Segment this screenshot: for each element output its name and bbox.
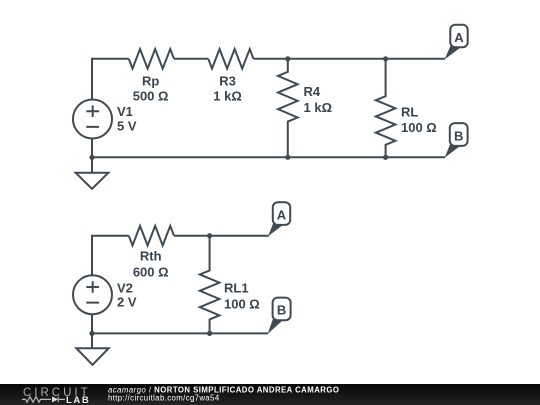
svg-text:100 Ω: 100 Ω <box>224 297 260 312</box>
svg-text:LAB: LAB <box>66 395 90 405</box>
junction dot RL top <box>383 56 388 61</box>
svg-text:R4: R4 <box>304 84 321 99</box>
resistor R4 <box>278 59 298 158</box>
resistor RL <box>376 59 396 158</box>
svg-text:A: A <box>277 207 287 222</box>
svg-text:http://circuitlab.com/cg7wa54: http://circuitlab.com/cg7wa54 <box>108 394 220 403</box>
voltage source V2 <box>73 275 112 314</box>
flag tail A top <box>445 46 460 60</box>
flag tail A bottom <box>268 223 283 236</box>
junction dot Rth/RL1 <box>207 233 212 238</box>
wire R3 to node A <box>254 58 446 60</box>
svg-text:RL: RL <box>401 104 418 119</box>
svg-text:1 kΩ: 1 kΩ <box>213 88 242 103</box>
node flag B box top <box>450 123 468 146</box>
svg-text:V2: V2 <box>117 280 133 295</box>
svg-text:B: B <box>277 303 286 318</box>
wire top-left corner V1 to Rp <box>92 59 129 100</box>
junction dot R4 bottom <box>285 155 290 160</box>
wire Rp to R3 <box>174 58 208 60</box>
flag tail B top <box>445 144 460 158</box>
junction dot Rp/R4 top <box>285 56 290 61</box>
node flag B box bottom <box>273 298 291 321</box>
junction dot V1 bottom <box>89 155 94 160</box>
voltage source V1 <box>73 100 112 139</box>
svg-text:R3: R3 <box>219 74 236 89</box>
svg-text:B: B <box>454 128 463 143</box>
svg-text:5 V: 5 V <box>117 118 137 133</box>
resistor R3 <box>208 49 253 69</box>
svg-text:600 Ω: 600 Ω <box>133 264 169 279</box>
junction dot RL1 bottom <box>207 331 212 336</box>
svg-text:2 V: 2 V <box>117 294 137 309</box>
svg-text:1 kΩ: 1 kΩ <box>304 100 333 115</box>
ground top <box>76 173 109 189</box>
svg-text:Rth: Rth <box>140 249 162 264</box>
flag tail B bottom <box>268 319 283 335</box>
logo resistor-diode glyph <box>22 397 65 403</box>
bottom circuit: wire corner V2 to Rth <box>92 236 129 276</box>
wire bottom rail bottom circuit <box>92 332 268 334</box>
ground bottom <box>76 348 108 365</box>
svg-text:A: A <box>454 30 464 45</box>
wire Rth to node A bottom <box>174 235 269 237</box>
node flag A box bottom <box>273 202 290 225</box>
svg-text:V1: V1 <box>117 104 133 119</box>
wire V2 bottom to ground <box>91 314 93 348</box>
wire bottom rail top circuit <box>92 156 445 158</box>
node flag A box top <box>450 25 467 48</box>
svg-text:RL1: RL1 <box>224 281 249 296</box>
resistor RL1 <box>200 236 220 334</box>
junction dot RL bottom <box>383 155 388 160</box>
svg-text:Rp: Rp <box>142 74 159 89</box>
svg-text:100 Ω: 100 Ω <box>401 120 437 135</box>
wire V1 bottom to ground <box>91 139 93 173</box>
logo diode triangle <box>52 396 58 402</box>
resistor Rth <box>129 226 174 246</box>
svg-text:500 Ω: 500 Ω <box>133 88 169 103</box>
junction dot V2 bottom <box>89 331 94 336</box>
resistor Rp <box>129 49 174 69</box>
